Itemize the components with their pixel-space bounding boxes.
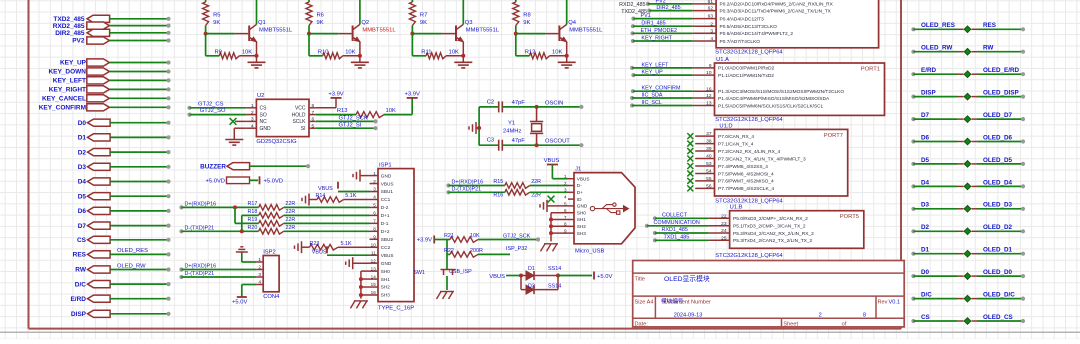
svg-text:STC32G12K128_LQFP64: STC32G12K128_LQFP64 — [715, 49, 783, 55]
svg-text:D/C: D/C — [921, 292, 932, 299]
port KEY_RIGHT — [49, 86, 171, 94]
port D3 — [78, 163, 171, 171]
port CS — [77, 236, 171, 244]
svg-text:200R: 200R — [470, 248, 483, 254]
port DISP — [71, 310, 171, 318]
port D1 — [78, 134, 171, 142]
svg-text:2: 2 — [564, 181, 567, 186]
wires ISP1 shield pins — [361, 271, 370, 299]
junction node emitter Q3 — [461, 54, 465, 58]
svg-text:MMBT5551L: MMBT5551L — [466, 28, 500, 34]
power +5.0V at ISP2 pin4 — [232, 285, 256, 306]
svg-text:10K: 10K — [449, 49, 459, 55]
svg-text:RXD2_485: RXD2_485 — [619, 2, 645, 8]
svg-text:R23: R23 — [310, 241, 320, 247]
svg-text:R14: R14 — [316, 193, 326, 199]
svg-text:P1.0/ADC0/PWM1P/RxD2: P1.0/ADC0/PWM1P/RxD2 — [718, 66, 775, 72]
svg-text:D4: D4 — [78, 179, 87, 186]
net RXD2_485 PV2 — [619, 0, 693, 8]
svg-text:4: 4 — [564, 195, 567, 200]
svg-text:CON4: CON4 — [263, 294, 280, 300]
svg-text:GTJ2_CS: GTJ2_CS — [198, 101, 224, 107]
resistor R18 22R — [248, 209, 370, 218]
svg-text:16: 16 — [706, 86, 712, 92]
svg-text:RW: RW — [75, 267, 87, 274]
svg-text:KEY_LEFT: KEY_LEFT — [53, 78, 86, 85]
net tie D7 - OLED_D7 — [911, 112, 1025, 122]
port D6 — [78, 207, 171, 215]
ground below Q3 — [454, 56, 472, 68]
connector J1 Micro_USB — [564, 167, 635, 255]
svg-text:IIC_SCL: IIC_SCL — [642, 100, 662, 106]
svg-text:D1: D1 — [528, 266, 535, 272]
net TXD1_485 — [653, 234, 709, 242]
svg-text:OLED_D0: OLED_D0 — [983, 269, 1013, 276]
svg-text:D6: D6 — [921, 134, 930, 141]
ground at ISP1 pin1 — [353, 170, 370, 182]
svg-text:R12: R12 — [525, 49, 536, 55]
svg-text:7: 7 — [312, 110, 315, 116]
svg-text:SH3: SH3 — [577, 231, 587, 236]
svg-text:KEY_RIGHT: KEY_RIGHT — [641, 36, 672, 42]
svg-text:D4: D4 — [921, 179, 930, 186]
svg-text:KEY_LEFT: KEY_LEFT — [642, 62, 670, 68]
svg-text:VCC: VCC — [295, 106, 306, 112]
net tie D/C - OLED_D/C — [911, 292, 1025, 302]
svg-text:2: 2 — [710, 21, 713, 27]
ground at J1 GND pin — [540, 200, 568, 212]
svg-text:9K: 9K — [420, 20, 427, 26]
svg-text:SH2: SH2 — [381, 285, 391, 290]
port KEY_CANCEL — [42, 95, 171, 103]
ferrite bead +5.0VD — [206, 176, 284, 184]
svg-text:RES: RES — [73, 252, 87, 259]
svg-text:15: 15 — [371, 282, 377, 287]
svg-text:22R: 22R — [531, 179, 541, 185]
svg-text:VBUS: VBUS — [381, 253, 394, 258]
port KEY_CONFIRM — [39, 104, 171, 112]
svg-text:P1.3/ADC3/MOSI/S1S/MOSI/S1S2MO: P1.3/ADC3/MOSI/S1S/MOSI/S1S2MOSI/PWM2N/T… — [718, 89, 844, 95]
svg-text:D1: D1 — [78, 135, 87, 142]
svg-text:OLED_RES: OLED_RES — [921, 22, 955, 29]
svg-text:+5.0VD: +5.0VD — [206, 179, 226, 185]
svg-text:+3.9V: +3.9V — [417, 238, 432, 244]
svg-text:8: 8 — [373, 227, 376, 232]
svg-text:KEY_RIGHT: KEY_RIGHT — [49, 87, 86, 94]
svg-text:DIR2_485: DIR2_485 — [656, 5, 680, 11]
resistor R12 10K — [516, 34, 567, 59]
svg-text:CC2: CC2 — [381, 245, 391, 250]
svg-text:40: 40 — [706, 154, 712, 160]
net label GTJ2_CS — [187, 101, 246, 110]
svg-text:GND: GND — [381, 173, 392, 178]
svg-text:OLED_D4: OLED_D4 — [983, 179, 1013, 186]
resistor R11 10K — [412, 34, 463, 59]
resistor R5 9K — [203, 0, 221, 34]
junction node emitter Q4 — [565, 54, 569, 58]
ground below Q2 — [351, 56, 369, 68]
svg-text:GND: GND — [381, 261, 392, 266]
sheet border — [29, 0, 902, 329]
port RXD2_485 — [53, 22, 171, 30]
svg-text:RXD2_485: RXD2_485 — [53, 23, 85, 30]
svg-text:D5: D5 — [921, 157, 930, 164]
svg-text:R19: R19 — [248, 217, 258, 223]
svg-text:22: 22 — [721, 213, 727, 219]
resistor R13 10K — [316, 108, 396, 118]
svg-text:VBUS: VBUS — [577, 176, 590, 181]
net tie D2 - OLED_D2 — [911, 224, 1025, 234]
svg-text:13: 13 — [706, 101, 712, 107]
svg-text:Q1: Q1 — [258, 20, 266, 26]
svg-text:D1: D1 — [921, 247, 930, 254]
net PV1 — [631, 13, 692, 21]
svg-text:TYPE_C_16P: TYPE_C_16P — [378, 305, 414, 311]
svg-text:55: 55 — [706, 176, 712, 182]
transistor Q2 MMBT5551L — [353, 0, 397, 56]
svg-text:10K: 10K — [386, 108, 396, 114]
svg-text:RXD1_485: RXD1_485 — [662, 227, 688, 233]
junction D- vertical — [240, 215, 259, 233]
svg-text:VBUS: VBUS — [318, 186, 333, 192]
svg-text:5: 5 — [312, 123, 315, 129]
svg-text:12: 12 — [371, 258, 377, 263]
svg-text:KEY_CONFIRM: KEY_CONFIRM — [642, 86, 681, 92]
svg-text:SW1: SW1 — [413, 270, 425, 276]
svg-text:2: 2 — [819, 313, 822, 319]
svg-text:9K: 9K — [213, 20, 220, 26]
junction node emitter Q1 — [255, 54, 259, 58]
svg-text:Micro_USB: Micro_USB — [575, 249, 604, 255]
svg-text:STC32G12K128_LQFP64: STC32G12K128_LQFP64 — [715, 253, 783, 259]
svg-text:VBUS: VBUS — [312, 250, 327, 256]
svg-text:11: 11 — [371, 250, 376, 255]
svg-text:R21: R21 — [444, 233, 454, 239]
svg-text:OLED_D6: OLED_D6 — [983, 134, 1013, 141]
svg-text:Q2: Q2 — [361, 20, 369, 26]
net label D+(RXD)P16 lower — [179, 264, 256, 272]
net label VBUS diodes — [489, 274, 521, 280]
svg-text:COMMUNICATION: COMMUNICATION — [654, 220, 700, 226]
resistor R10 10K — [309, 34, 360, 59]
svg-text:C2: C2 — [487, 99, 494, 105]
svg-text:Size A4: Size A4 — [635, 300, 654, 306]
svg-text:+3.9V: +3.9V — [328, 92, 343, 98]
svg-text:HOLD: HOLD — [292, 112, 306, 118]
net tie OLED_RES - RES — [911, 22, 1025, 32]
net tie D4 - OLED_D4 — [911, 179, 1025, 189]
svg-text:ISP_P32: ISP_P32 — [506, 246, 527, 252]
no-connect X marks PORT7 — [687, 133, 693, 191]
port KEY_LEFT — [53, 77, 171, 85]
resistor R9 10K — [206, 34, 257, 59]
ground below Q1 — [248, 56, 266, 68]
net tie D1 - OLED_D1 — [911, 247, 1025, 257]
svg-text:56: 56 — [706, 183, 712, 189]
svg-text:9K: 9K — [523, 20, 530, 26]
svg-text:D0: D0 — [921, 269, 930, 276]
svg-text:25: 25 — [721, 235, 727, 241]
svg-text:5.1K: 5.1K — [345, 193, 356, 199]
net KEY_LEFT to U1 — [630, 62, 693, 70]
svg-text:D/C: D/C — [75, 281, 87, 288]
wire base Q3 — [412, 33, 455, 35]
svg-text:ETH_PMODE2: ETH_PMODE2 — [641, 28, 678, 34]
svg-text:KEY_UP: KEY_UP — [642, 70, 664, 76]
svg-text:DISP: DISP — [71, 311, 87, 318]
chassis ground below SW1 — [437, 292, 455, 300]
svg-text:D6: D6 — [78, 208, 87, 215]
net tie CS - OLED_CS — [911, 314, 1025, 324]
net IIC_SCL — [630, 100, 693, 108]
junction node base R8 — [514, 32, 518, 36]
diode D1 SS14 — [519, 266, 561, 280]
port KEY_UP — [60, 59, 171, 67]
svg-text:BUZZER: BUZZER — [200, 163, 226, 170]
svg-text:of: of — [842, 322, 847, 328]
resistor R16 22R — [493, 190, 568, 199]
svg-text:54: 54 — [706, 169, 712, 175]
net IIC_SDA — [630, 93, 693, 101]
svg-text:P5.0/RxD3_2/CMP+_3/CAN_RX_2: P5.0/RxD3_2/CMP+_3/CAN_RX_2 — [733, 216, 808, 222]
net ETH_PMODE2 — [630, 28, 692, 36]
svg-text:9K: 9K — [317, 20, 324, 26]
svg-text:22R: 22R — [285, 225, 295, 231]
svg-text:VBUS: VBUS — [381, 181, 394, 186]
svg-text:SBU1: SBU1 — [381, 189, 394, 194]
svg-text:1: 1 — [258, 257, 261, 263]
svg-text:9: 9 — [373, 234, 376, 239]
svg-text:OLED_RES: OLED_RES — [117, 248, 148, 254]
net COMMUNICATION — [645, 220, 709, 228]
net KEY_RIGHT to U1 — [631, 36, 693, 44]
svg-text:10: 10 — [706, 70, 712, 76]
net tie E/RD - OLED_E/RD — [911, 67, 1025, 77]
power VBUS at J1 — [544, 158, 568, 179]
svg-text:6: 6 — [312, 117, 315, 123]
junctions J1 shield — [549, 218, 553, 236]
svg-text:37: 37 — [706, 131, 712, 137]
svg-text:R7: R7 — [420, 13, 427, 19]
net tie D5 - OLED_D5 — [911, 157, 1025, 167]
svg-text:R16: R16 — [493, 193, 503, 199]
svg-text:D-2: D-2 — [381, 205, 389, 210]
svg-text:P7.4/PWM5_4/S2SS_4: P7.4/PWM5_4/S2SS_4 — [718, 164, 768, 170]
svg-text:D2: D2 — [78, 149, 87, 156]
resistor R20 22R — [248, 225, 370, 234]
svg-text:8: 8 — [863, 313, 866, 319]
svg-text:VBUS: VBUS — [489, 274, 505, 280]
svg-text:C3: C3 — [487, 138, 494, 144]
svg-text:R8: R8 — [523, 13, 530, 19]
svg-text:DISP: DISP — [921, 90, 936, 97]
usb logo inside J1 — [590, 203, 628, 214]
ground below Q4 — [558, 56, 576, 68]
net tie DISP - OLED_DISP — [911, 90, 1025, 100]
svg-text:SH0: SH0 — [577, 210, 587, 215]
net label D+(RXD)P16 upper — [179, 202, 258, 210]
svg-text:R6: R6 — [317, 13, 324, 19]
net TXD2_485 DIR2_485 — [621, 5, 692, 15]
svg-text:SCLK: SCLK — [292, 119, 306, 125]
svg-text:+5.0VD: +5.0VD — [264, 179, 284, 185]
port RES — [73, 248, 171, 258]
svg-text:P7.3/CAN2_TX_4/LIN_TX_4/PWMFLT: P7.3/CAN2_TX_4/LIN_TX_4/PWMFLT_3 — [718, 156, 806, 162]
svg-text:SBU2: SBU2 — [381, 237, 394, 242]
no-connect X on J1 pin ID — [548, 196, 555, 203]
resistor R22 200R — [444, 240, 510, 258]
net label GTJ2_SCK — [316, 116, 378, 124]
resistor R6 9K — [306, 0, 324, 34]
svg-text:4: 4 — [251, 123, 254, 129]
crystal Y1 24MHz — [503, 107, 543, 145]
svg-text:OSCIN: OSCIN — [545, 100, 563, 106]
svg-text:22R: 22R — [285, 209, 295, 215]
svg-text:R10: R10 — [318, 49, 329, 55]
net tie OLED_RW - RW — [911, 45, 1025, 55]
junction ISP1 shield — [359, 277, 363, 297]
svg-text:KEY_CANCEL: KEY_CANCEL — [42, 96, 86, 103]
svg-text:R15: R15 — [493, 179, 503, 185]
svg-text:4: 4 — [258, 280, 261, 286]
svg-text:GTJ2_SCK: GTJ2_SCK — [339, 116, 368, 122]
svg-text:2024-09-13: 2024-09-13 — [674, 313, 703, 319]
transistor Q3 MMBT5551L — [456, 0, 500, 56]
junction node emitter Q2 — [358, 54, 362, 58]
svg-text:+5.0V: +5.0V — [597, 274, 612, 280]
svg-text:D2: D2 — [528, 284, 535, 290]
port KEY_DOWN — [48, 68, 170, 76]
net COLLECT — [653, 212, 709, 220]
svg-text:KEY_CONFIRM: KEY_CONFIRM — [39, 105, 86, 112]
svg-text:DIR2_485: DIR2_485 — [55, 30, 85, 37]
svg-text:3: 3 — [251, 117, 254, 123]
svg-text:22R: 22R — [285, 201, 295, 207]
svg-text:Sheet: Sheet — [783, 322, 798, 328]
svg-text:NC: NC — [260, 119, 268, 125]
svg-text:P1.1/ADC1/PWM1N/TxD2: P1.1/ADC1/PWM1N/TxD2 — [718, 73, 774, 79]
svg-text:8: 8 — [312, 103, 315, 109]
net label GTJ2_SI — [316, 122, 378, 130]
svg-text:38: 38 — [706, 139, 712, 145]
resistor R19 22R — [248, 217, 370, 226]
svg-text:3: 3 — [564, 188, 567, 193]
svg-text:GND: GND — [260, 126, 272, 132]
svg-text:P7.2/CAN2_RX_4/LIN_RX_4: P7.2/CAN2_RX_4/LIN_RX_4 — [718, 149, 780, 155]
svg-text:R17: R17 — [248, 201, 258, 207]
net RXD1_485 — [653, 227, 709, 235]
svg-text:MMBT5551L: MMBT5551L — [569, 28, 603, 34]
svg-text:OLED_D1: OLED_D1 — [983, 247, 1013, 254]
svg-text:7: 7 — [373, 219, 376, 224]
svg-text:5.1K: 5.1K — [341, 241, 352, 247]
svg-text:D+1: D+1 — [381, 213, 390, 218]
power +3.9V at R13 — [384, 92, 420, 115]
port D/C — [75, 281, 171, 289]
wire base Q1 — [206, 33, 249, 35]
svg-text:R20: R20 — [248, 225, 258, 231]
title block — [633, 261, 905, 328]
svg-text:Date:: Date: — [635, 322, 649, 328]
svg-text:模块编号: 模块编号 — [661, 297, 684, 305]
svg-text:CC1: CC1 — [381, 197, 391, 202]
svg-text:9: 9 — [709, 63, 712, 69]
resistor R14 5.1K — [302, 193, 370, 205]
svg-text:16: 16 — [371, 290, 377, 295]
svg-text:RW: RW — [983, 45, 993, 52]
svg-text:U1.A: U1.A — [716, 57, 729, 63]
svg-text:14: 14 — [371, 274, 377, 279]
svg-text:62: 62 — [708, 6, 714, 12]
svg-text:GTJ2_SCK: GTJ2_SCK — [503, 233, 531, 239]
svg-text:CS: CS — [260, 106, 268, 112]
port TXD2_485 — [53, 15, 170, 23]
svg-text:COLLECT: COLLECT — [662, 212, 688, 218]
svg-text:Q4: Q4 — [568, 20, 577, 26]
svg-text:2: 2 — [251, 110, 254, 116]
svg-text:10K: 10K — [242, 49, 252, 55]
svg-text:VBUS: VBUS — [544, 158, 560, 164]
svg-text:SH0: SH0 — [381, 269, 391, 274]
net label GTJ2_SCK ISP_P32 — [503, 233, 540, 252]
junction node base R6 — [307, 32, 311, 36]
svg-text:KEY_DOWN: KEY_DOWN — [48, 69, 86, 76]
svg-text:SS14: SS14 — [548, 266, 561, 272]
resistor R8 9K — [513, 0, 531, 34]
svg-text:22R: 22R — [285, 217, 295, 223]
ic U1 P0 port block — [693, 0, 879, 55]
svg-text:GD25Q32CSIG: GD25Q32CSIG — [256, 139, 297, 145]
svg-text:12: 12 — [706, 93, 712, 99]
port E/RD — [70, 295, 170, 303]
svg-text:D7: D7 — [78, 223, 87, 230]
ground above ISP2 pin1 — [236, 247, 257, 262]
svg-text:E/RD: E/RD — [921, 67, 936, 74]
svg-text:ISP1: ISP1 — [379, 163, 392, 169]
svg-text:PORT7: PORT7 — [824, 133, 843, 139]
port BUZZER — [200, 163, 310, 171]
port RW — [75, 263, 170, 273]
wire base Q4 — [516, 33, 559, 35]
port D0 — [78, 119, 171, 127]
junction D+ vertical — [233, 205, 259, 223]
svg-text:P0.3/AD3/ADC11/TxD4/PWM6_2/CAN: P0.3/AD3/ADC11/TxD4/PWM6_2/CAN2_TX/LIN_T… — [720, 8, 832, 14]
svg-text:IIC_SDA: IIC_SDA — [642, 93, 663, 99]
svg-text:P0.5/AD5/ADC13/T3CLKO: P0.5/AD5/ADC13/T3CLKO — [720, 24, 778, 30]
svg-text:D3: D3 — [78, 164, 87, 171]
svg-text:R11: R11 — [421, 49, 431, 55]
svg-text:PV1: PV1 — [641, 13, 651, 19]
power +3.9V at U2 VCC — [316, 92, 344, 108]
net tie D0 - OLED_D0 — [911, 269, 1025, 279]
svg-text:P7.0/CAN_RX_4: P7.0/CAN_RX_4 — [718, 134, 754, 140]
svg-text:2: 2 — [373, 179, 376, 184]
net DIR1_485 — [631, 21, 693, 29]
svg-text:4: 4 — [373, 195, 376, 200]
svg-text:OLED_DISP: OLED_DISP — [983, 90, 1019, 97]
svg-text:P0.7/AD7/T4CLKO: P0.7/AD7/T4CLKO — [720, 39, 761, 45]
svg-text:GTJ2_SI: GTJ2_SI — [339, 122, 362, 128]
svg-text:PV2: PV2 — [72, 38, 85, 45]
svg-text:STC32G12K128_LQFP64: STC32G12K128_LQFP64 — [715, 199, 783, 205]
svg-text:3: 3 — [258, 272, 261, 278]
svg-text:53: 53 — [706, 161, 712, 167]
svg-text:+3.9V: +3.9V — [405, 92, 420, 98]
svg-text:Rev: Rev — [878, 300, 888, 306]
svg-text:1: 1 — [373, 171, 376, 176]
resistor R21 10K — [444, 233, 538, 242]
svg-text:P7.5/PWM6_4/S2MOSI_4: P7.5/PWM6_4/S2MOSI_4 — [718, 171, 774, 177]
